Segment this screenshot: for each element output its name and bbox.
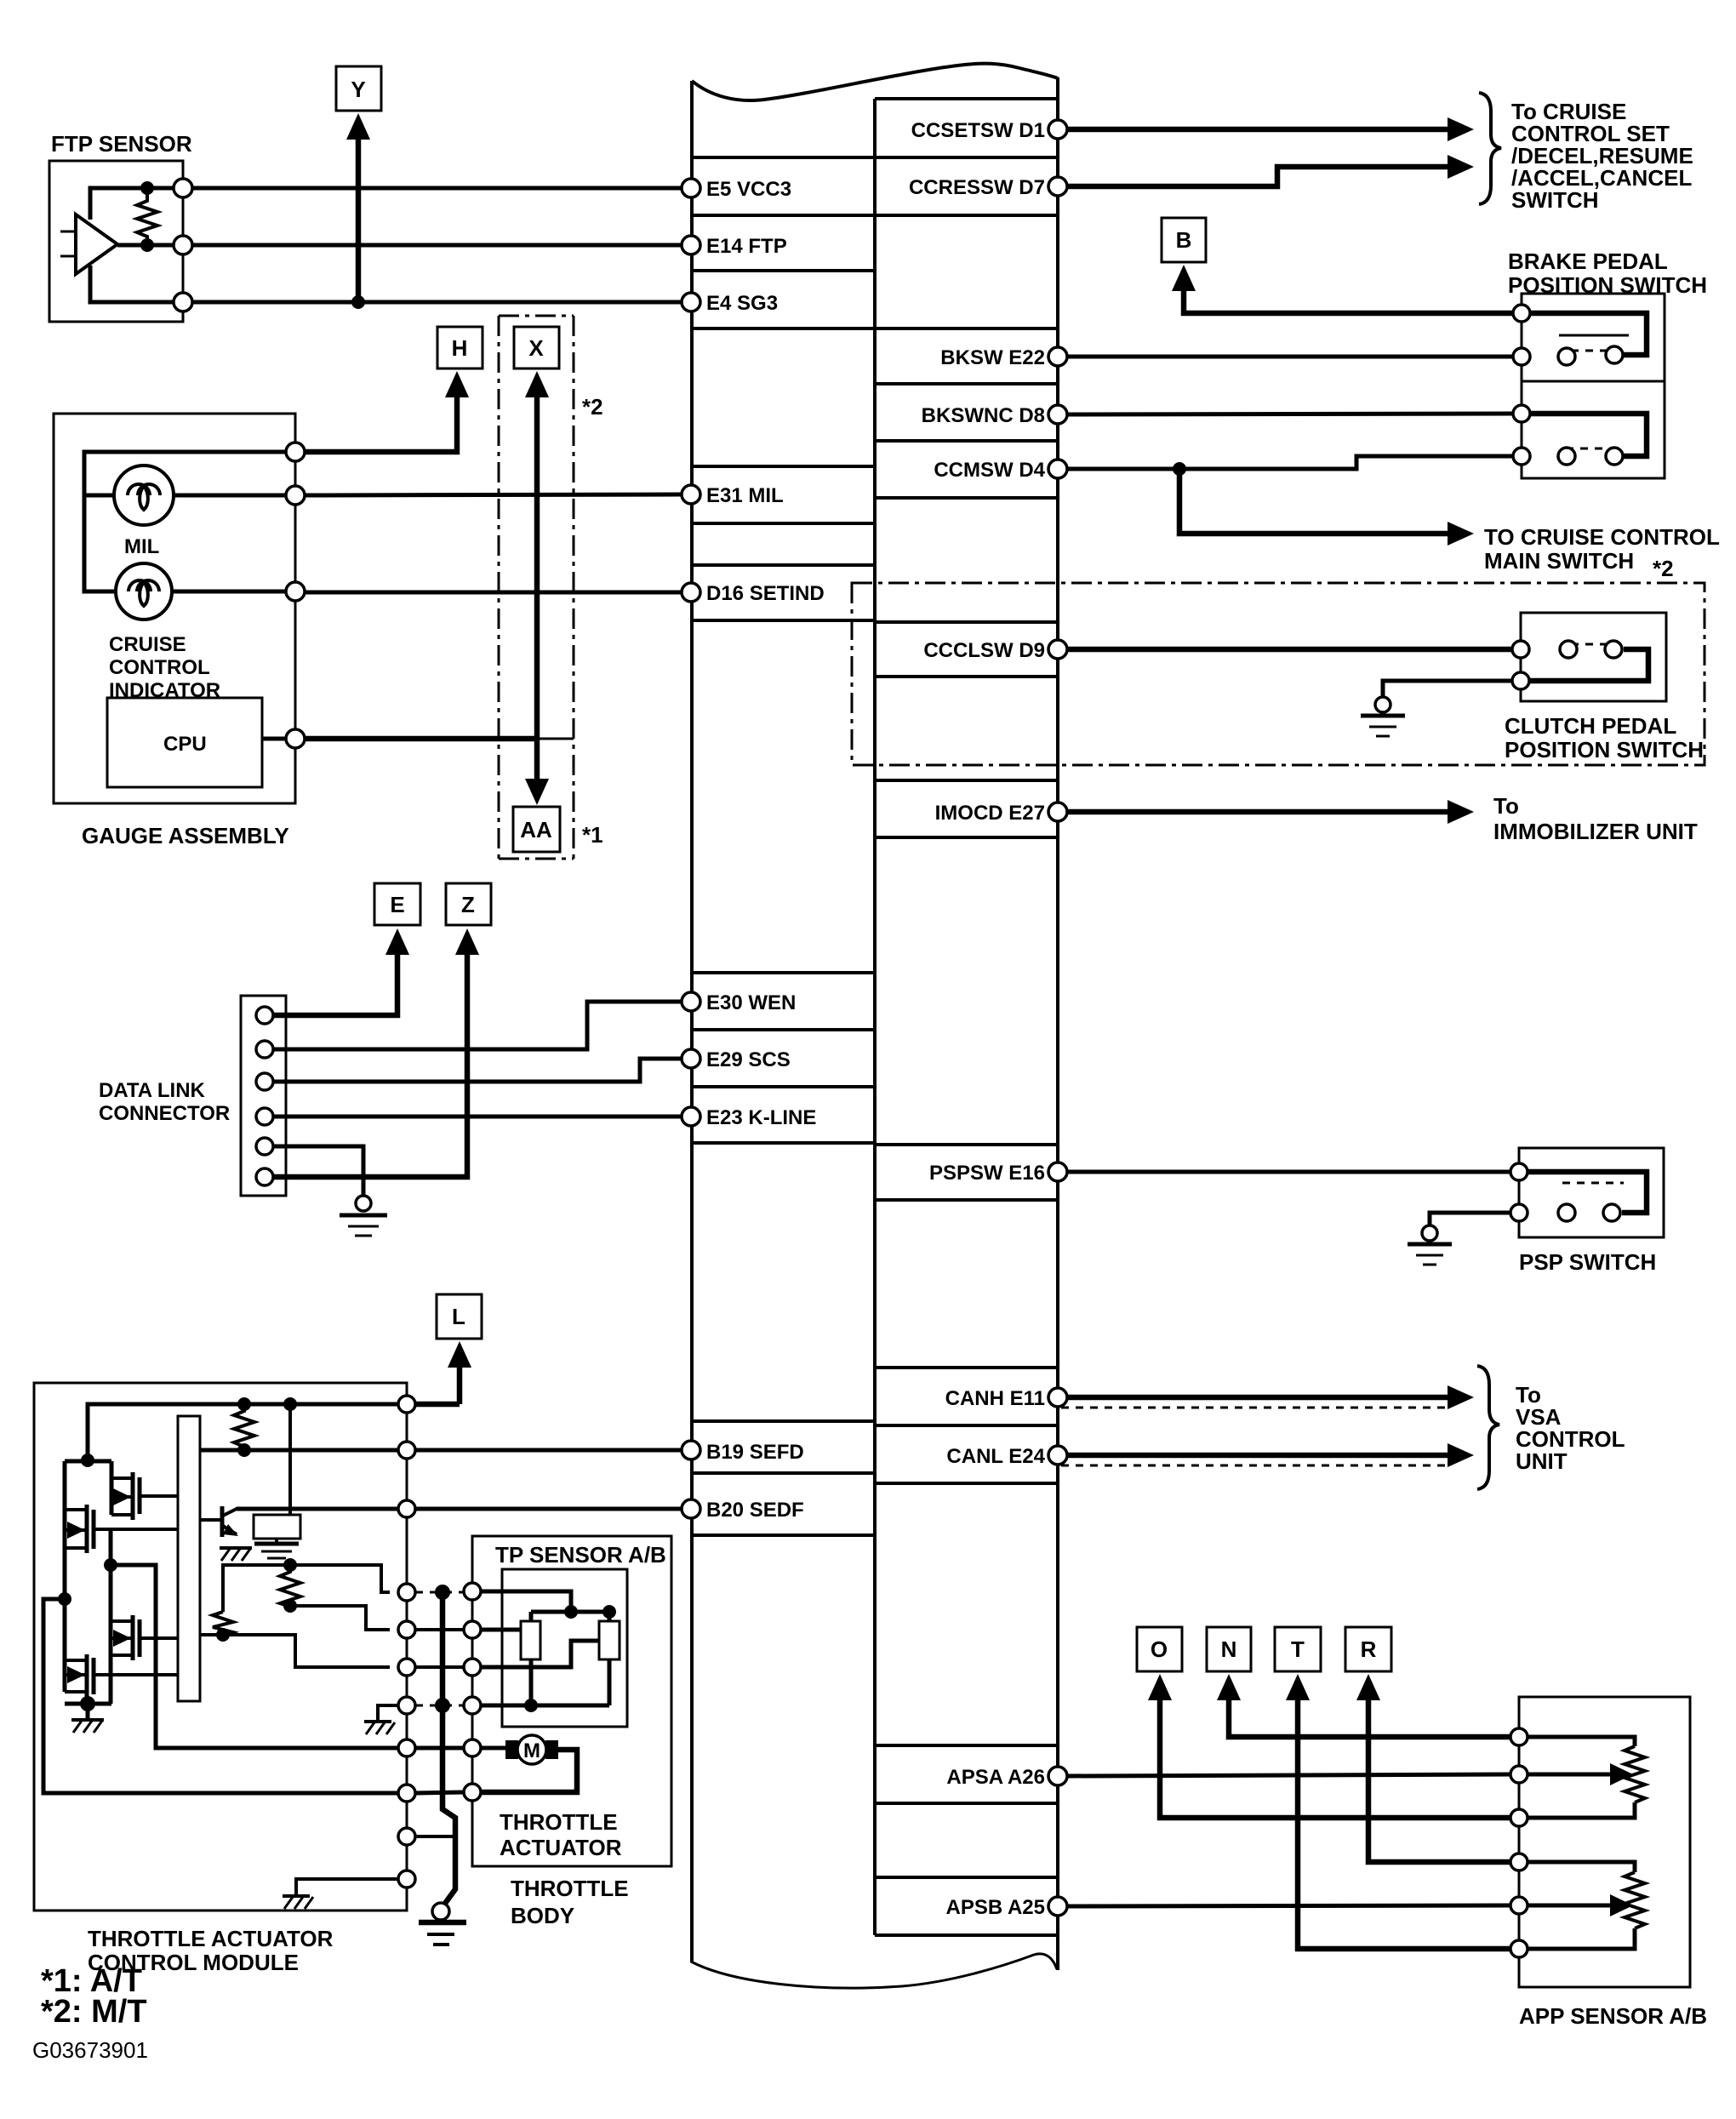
junction at Q2/Q4 rail bbox=[58, 1592, 71, 1606]
rail R2 to TP wiper A row bbox=[290, 1606, 390, 1630]
brake switch 2 dashed contact bbox=[1566, 448, 1617, 450]
arrowhead into H bbox=[445, 371, 469, 397]
APP sensor box bbox=[1519, 1697, 1707, 2029]
brake switch 1 closed bar bbox=[1559, 334, 1629, 337]
brake pedal position switch boxes bbox=[1508, 248, 1707, 478]
svg-text:B20 SEDF: B20 SEDF bbox=[706, 1499, 804, 1522]
wire CANL E24 to VSA bbox=[1067, 1453, 1451, 1459]
svg-text:D16 SETIND: D16 SETIND bbox=[706, 582, 825, 605]
FTP internal pull-up resistor bbox=[137, 194, 157, 241]
junction R2 bottom bbox=[283, 1599, 297, 1613]
junction on CCMSW wire bbox=[1173, 462, 1186, 476]
svg-text:M: M bbox=[523, 1739, 540, 1762]
wire TACM to B19 SEFD bbox=[415, 1448, 682, 1453]
CPU output wire bbox=[262, 737, 286, 741]
wire PSPSW E16 to PSP switch bbox=[1067, 1170, 1512, 1174]
junction R3 bottom bbox=[216, 1628, 230, 1642]
svg-text:BODY: BODY bbox=[511, 1903, 574, 1928]
wire TACM to motor return bbox=[415, 1792, 464, 1793]
wire CCMSW D4 to brake switch 2 bbox=[1067, 456, 1513, 469]
svg-text:CONTROL: CONTROL bbox=[109, 656, 210, 679]
svg-text:CONNECTOR: CONNECTOR bbox=[99, 1102, 230, 1125]
wire DLC pin2 to E30 WEN bbox=[273, 1002, 682, 1049]
throttle body pin circles bbox=[464, 1583, 481, 1801]
left rail of mosfet bridge bbox=[65, 1459, 111, 1464]
wire IMOCD E27 to immobilizer bbox=[1067, 809, 1451, 815]
arrowhead into B bbox=[1172, 265, 1196, 291]
svg-text:GAUGE ASSEMBLY: GAUGE ASSEMBLY bbox=[82, 823, 289, 848]
svg-text:R: R bbox=[1361, 1636, 1377, 1662]
throttle actuator control module box bbox=[34, 1383, 407, 1975]
wire from Q4 rail to motor return row bbox=[43, 1599, 398, 1793]
clutch switch pin circles bbox=[1512, 641, 1529, 658]
junction TP VCC bbox=[564, 1605, 578, 1619]
op-amp inside FTP sensor bbox=[76, 214, 117, 274]
junction R1 bottom bbox=[237, 1443, 251, 1457]
arrowhead into X bbox=[525, 371, 549, 397]
svg-text:B: B bbox=[1176, 227, 1192, 253]
ECM pin circles, right edge bbox=[1048, 120, 1067, 1916]
dashed link TACM to TB row1 bbox=[415, 1591, 464, 1594]
svg-text:POSITION SWITCH: POSITION SWITCH bbox=[1508, 272, 1707, 298]
svg-text:CCMSW D4: CCMSW D4 bbox=[934, 459, 1045, 482]
svg-text:TP SENSOR A/B: TP SENSOR A/B bbox=[495, 1542, 666, 1568]
PSP switch box bbox=[1519, 1148, 1664, 1275]
clutch switch movable contact bbox=[1530, 649, 1648, 681]
svg-text:Y: Y bbox=[351, 77, 365, 102]
brake switch 1 pin circles bbox=[1513, 305, 1530, 322]
resistor R1 bbox=[234, 1404, 254, 1450]
svg-text:CLUTCH PEDAL: CLUTCH PEDAL bbox=[1505, 713, 1676, 739]
transistor Q5 bbox=[200, 1506, 238, 1537]
connector E box bbox=[374, 883, 420, 925]
svg-text:L: L bbox=[452, 1304, 465, 1329]
svg-text:E31 MIL: E31 MIL bbox=[706, 484, 784, 507]
wire gauge pin 1 to connector H bbox=[305, 394, 457, 452]
svg-text:BRAKE PEDAL: BRAKE PEDAL bbox=[1508, 248, 1668, 274]
wire gauge cruise pin to D16 SETIND bbox=[305, 591, 682, 595]
svg-text:IMMOBILIZER UNIT: IMMOBILIZER UNIT bbox=[1493, 819, 1698, 844]
rail BJT collector to B20 pin bbox=[237, 1507, 398, 1511]
arrowhead into E bbox=[385, 928, 409, 955]
wire APP SG to connector O bbox=[1160, 1697, 1510, 1818]
APP resistor B bbox=[1528, 1862, 1635, 1872]
wire CPU pin toward X line bbox=[305, 736, 537, 742]
brake switch 1 movable contact bbox=[1530, 313, 1647, 355]
MIL lamp bbox=[114, 465, 174, 558]
svg-text:PSP SWITCH: PSP SWITCH bbox=[1519, 1249, 1656, 1275]
motor return wire bbox=[481, 1750, 577, 1792]
wire CCRESSW D7 to cruise set switch bbox=[1067, 167, 1451, 186]
brake switch 2 pin circles bbox=[1513, 405, 1530, 422]
svg-text:X: X bbox=[528, 335, 544, 361]
junction shield row4 bbox=[435, 1698, 450, 1713]
TP sensor VCC wiring bbox=[481, 1591, 609, 1621]
svg-text:THROTTLE: THROTTLE bbox=[500, 1809, 618, 1835]
TP wiper A wire bbox=[481, 1628, 521, 1632]
svg-text:DATA LINK: DATA LINK bbox=[99, 1079, 206, 1102]
clutch switch dashed contact bbox=[1571, 643, 1610, 646]
ground for Q5 emitter bbox=[220, 1548, 252, 1561]
svg-text:To: To bbox=[1493, 793, 1519, 819]
TACM top rail bbox=[88, 1404, 398, 1460]
driver IC bar bbox=[178, 1416, 200, 1701]
TACM right edge pin circles bbox=[398, 1396, 415, 1888]
connector L box bbox=[437, 1294, 482, 1339]
main earth ground bbox=[419, 1903, 466, 1945]
svg-text:AA: AA bbox=[520, 817, 552, 842]
dashed shield CANH bbox=[1061, 1407, 1447, 1409]
TP wiper B wire bbox=[481, 1641, 599, 1667]
ground for DLC bbox=[340, 1196, 387, 1236]
ground at TACM ground pin bbox=[283, 1896, 313, 1909]
svg-text:E30 WEN: E30 WEN bbox=[706, 991, 796, 1014]
brace cruise set switch bbox=[1479, 93, 1501, 204]
dashed link TACM to TB row4 bbox=[415, 1705, 464, 1707]
label to cruise control set switch bbox=[1511, 99, 1693, 213]
svg-text:IMOCD E27: IMOCD E27 bbox=[935, 802, 1045, 825]
FTP internal wires bbox=[90, 188, 174, 302]
ground stub slashes bbox=[364, 1722, 395, 1734]
gauge assembly box bbox=[54, 414, 295, 848]
wire FTP to E5 VCC3 bbox=[192, 186, 682, 191]
ECM pin labels, right column bbox=[909, 119, 1046, 1919]
op-amp input stubs bbox=[60, 231, 76, 256]
shield drain thick wire bbox=[443, 1592, 455, 1905]
svg-text:T: T bbox=[1291, 1636, 1305, 1662]
clutch pedal position switch box bbox=[1505, 613, 1704, 762]
DLC pin circles bbox=[256, 1007, 273, 1024]
wire DLC pin3 to E29 SCS bbox=[273, 1059, 682, 1082]
svg-text:APSB A25: APSB A25 bbox=[946, 1896, 1045, 1919]
gauge assembly pin circles bbox=[286, 443, 305, 461]
FTP sensor box bbox=[49, 131, 192, 322]
arrowhead into T bbox=[1286, 1674, 1310, 1700]
junction TP ground bbox=[524, 1699, 538, 1712]
svg-text:*1: *1 bbox=[582, 822, 603, 848]
svg-text:MAIN SWITCH: MAIN SWITCH bbox=[1484, 548, 1634, 574]
arrowhead CANL bbox=[1448, 1443, 1474, 1467]
arrowhead CANH bbox=[1448, 1385, 1474, 1409]
svg-text:TO CRUISE CONTROL: TO CRUISE CONTROL bbox=[1484, 524, 1720, 550]
ECM connector band outline (torn-paper top and bottom edges) bbox=[691, 64, 1058, 1988]
wire junction to motor drive rail bbox=[111, 1565, 398, 1748]
rail to B19 pin bbox=[200, 1448, 398, 1453]
svg-text:*2: *2 bbox=[1653, 556, 1674, 581]
resistor R3 bbox=[213, 1612, 233, 1636]
PSP switch contact circles bbox=[1558, 1204, 1575, 1221]
svg-text:G03673901: G03673901 bbox=[32, 2037, 148, 2063]
wire CANH E11 to VSA bbox=[1067, 1395, 1451, 1401]
junction dots on top rail bbox=[237, 1397, 251, 1411]
rail IC to TP wiper B row bbox=[200, 1635, 390, 1667]
svg-text:E14 FTP: E14 FTP bbox=[706, 235, 787, 258]
label to VSA control unit bbox=[1516, 1382, 1625, 1474]
APP wiper B arrow bbox=[1528, 1904, 1614, 1908]
svg-text:Z: Z bbox=[461, 892, 475, 917]
wire APSA A26 to APP sensor bbox=[1067, 1774, 1510, 1776]
svg-text:APSA A26: APSA A26 bbox=[946, 1766, 1045, 1789]
TP sensor inner box bbox=[495, 1542, 666, 1727]
junction TP resistor B top bbox=[602, 1605, 616, 1619]
ECM pin labels, left column bbox=[706, 178, 825, 1522]
svg-text:CCRESSW D7: CCRESSW D7 bbox=[909, 176, 1045, 199]
svg-text:CANL E24: CANL E24 bbox=[946, 1445, 1045, 1468]
arrowhead immobilizer bbox=[1448, 800, 1474, 824]
ECM pin circles, left edge bbox=[682, 179, 700, 1518]
clutch switch ground wire bbox=[1383, 681, 1512, 697]
mosfet Q3 bbox=[111, 1615, 178, 1660]
TP sensor resistor B bbox=[599, 1621, 620, 1659]
gauge internal feed wire bbox=[84, 452, 286, 591]
motor feed wire bbox=[481, 1746, 505, 1751]
svg-text:E5 VCC3: E5 VCC3 bbox=[706, 178, 791, 201]
svg-text:CCCLSW D9: CCCLSW D9 bbox=[923, 639, 1045, 662]
throttle motor M1 bbox=[505, 1735, 558, 1764]
wire CCSETSW D1 to cruise set switch bbox=[1067, 127, 1451, 133]
svg-text:ACTUATOR: ACTUATOR bbox=[500, 1835, 622, 1860]
PSP switch movable contact bbox=[1528, 1172, 1647, 1213]
svg-text:MIL: MIL bbox=[124, 535, 159, 558]
svg-text:E4 SG3: E4 SG3 bbox=[706, 292, 778, 315]
wire CCCLSW D9 to clutch switch bbox=[1067, 647, 1513, 653]
arrowhead into O bbox=[1148, 1674, 1172, 1700]
mosfet Q1 bbox=[111, 1461, 178, 1520]
wire DLC pin1 to connector E bbox=[273, 953, 397, 1015]
connector AA box bbox=[513, 807, 560, 852]
thin continuation of CPU wire bbox=[537, 738, 574, 740]
arrowhead cruise set 1 bbox=[1448, 117, 1474, 141]
svg-text:CPU: CPU bbox=[163, 733, 207, 756]
junction bottom tie bbox=[80, 1696, 95, 1711]
wire TACM to motor feed bbox=[415, 1746, 464, 1751]
wire DLC pin6 to connector Z bbox=[273, 953, 467, 1177]
relay coil box bbox=[254, 1515, 300, 1539]
arrowhead into Z bbox=[455, 928, 479, 955]
rail from Q2 gate line down to Q3 bbox=[109, 1529, 113, 1655]
brake switch 2 contact circles bbox=[1558, 448, 1575, 465]
cruise lamp wire to D16 bbox=[172, 590, 286, 594]
TACM shield row7 wire bbox=[415, 1835, 455, 1838]
connector Z box bbox=[446, 883, 491, 925]
arrowhead into R bbox=[1356, 1674, 1380, 1700]
arrowhead into Y bbox=[346, 113, 370, 140]
M/T dash-dot bracket around X bbox=[499, 316, 574, 859]
FTP sensor pin circles bbox=[174, 179, 192, 197]
wire TACM to B20 SEDF bbox=[415, 1507, 682, 1511]
wire BKSW E22 to brake switch bbox=[1067, 355, 1513, 359]
mosfet Q4 bbox=[65, 1599, 178, 1698]
arrowhead into L bbox=[448, 1341, 471, 1368]
brake switch 1 contact circles bbox=[1558, 348, 1575, 365]
brake switch 2 movable contact bbox=[1530, 414, 1647, 456]
svg-text:O: O bbox=[1151, 1636, 1168, 1662]
MIL lamp wire to E31 bbox=[174, 494, 286, 498]
PSP switch dashed contact bbox=[1562, 1182, 1624, 1185]
svg-text:BKSW E22: BKSW E22 bbox=[940, 346, 1045, 369]
svg-text:*2: *2 bbox=[582, 394, 603, 420]
CPU box bbox=[107, 698, 262, 787]
svg-text:*2: M/T: *2: M/T bbox=[41, 1994, 147, 2030]
cruise control indicator lamp bbox=[109, 563, 220, 702]
M/T dash-dot box for clutch switch bbox=[852, 583, 1705, 765]
junction on FTP wire bbox=[140, 238, 154, 252]
wire FTP to E4 SG3 bbox=[192, 300, 682, 305]
wire APP B top to connector R bbox=[1368, 1697, 1510, 1862]
svg-text:APP SENSOR A/B: APP SENSOR A/B bbox=[1519, 2003, 1707, 2029]
wire to connector L bbox=[457, 1364, 463, 1404]
wire TACM pin1 to L bbox=[415, 1402, 460, 1408]
TACM sensor-ground stub bbox=[378, 1705, 398, 1722]
APP resistor A bbox=[1528, 1737, 1635, 1746]
svg-text:THROTTLE: THROTTLE bbox=[511, 1876, 629, 1901]
connector T box bbox=[1275, 1627, 1321, 1671]
wire APP B low to connector T bbox=[1298, 1697, 1510, 1949]
connector R box bbox=[1345, 1627, 1391, 1671]
bottom tie of bridge bbox=[65, 1655, 111, 1704]
arrowhead cruise set 2 bbox=[1448, 155, 1474, 179]
connector N box bbox=[1207, 1627, 1251, 1671]
TP sensor ground wiring bbox=[481, 1659, 609, 1705]
svg-text:CRUISE: CRUISE bbox=[109, 633, 186, 656]
svg-text:THROTTLE ACTUATOR: THROTTLE ACTUATOR bbox=[88, 1926, 334, 1951]
APP pin circles bbox=[1510, 1728, 1528, 1957]
coil feed wire bbox=[288, 1404, 292, 1515]
wire FTP to E14 FTP bbox=[192, 243, 682, 248]
brake switch 1 dashed contact bbox=[1571, 350, 1610, 352]
junction R2 top bbox=[283, 1558, 297, 1572]
label to immobilizer unit bbox=[1493, 793, 1698, 844]
wire TACM to TB wiper A bbox=[415, 1628, 464, 1631]
label to cruise control main switch bbox=[1484, 524, 1720, 574]
wire DLC pin5 to ground bbox=[273, 1146, 363, 1197]
svg-text:E23 K-LINE: E23 K-LINE bbox=[706, 1106, 816, 1129]
gate rail junction bbox=[104, 1558, 117, 1572]
resistor R2 bbox=[280, 1565, 300, 1607]
svg-text:E: E bbox=[390, 892, 404, 917]
ground for clutch switch bbox=[1361, 697, 1405, 736]
svg-text:N: N bbox=[1221, 1636, 1237, 1662]
branch to cruise main switch bbox=[1179, 469, 1451, 534]
svg-text:CANH E11: CANH E11 bbox=[945, 1387, 1045, 1410]
connector Y box bbox=[336, 66, 381, 111]
PSP switch pin circles bbox=[1510, 1163, 1528, 1180]
vertical wire X to AA bbox=[534, 394, 540, 784]
earth ground under coil box bbox=[254, 1539, 299, 1558]
wire APP VCC to connector N bbox=[1229, 1697, 1510, 1737]
svg-text:UNIT: UNIT bbox=[1516, 1448, 1568, 1474]
wire DLC pin4 to E23 K-LINE bbox=[273, 1115, 682, 1119]
arrowhead into N bbox=[1217, 1674, 1241, 1700]
wire to connector Y bbox=[356, 136, 362, 302]
junction of Y wire on E4 SG3 bbox=[351, 295, 365, 309]
svg-text:E29 SCS: E29 SCS bbox=[706, 1048, 791, 1071]
svg-text:POSITION SWITCH: POSITION SWITCH bbox=[1505, 737, 1704, 762]
svg-text:BKSWNC D8: BKSWNC D8 bbox=[922, 404, 1045, 427]
wire BKSWNC D8 to brake switch 2 bbox=[1067, 414, 1513, 414]
ground for PSP switch bbox=[1408, 1225, 1452, 1265]
svg-text:FTP SENSOR: FTP SENSOR bbox=[51, 131, 192, 157]
svg-text:PSPSW E16: PSPSW E16 bbox=[929, 1162, 1045, 1185]
svg-text:H: H bbox=[452, 335, 468, 361]
wire brake switch to connector B bbox=[1184, 288, 1515, 313]
junction on VCC3 wire bbox=[140, 181, 154, 195]
svg-text:CCSETSW D1: CCSETSW D1 bbox=[911, 119, 1045, 142]
data link connector box bbox=[99, 996, 286, 1196]
connector X box bbox=[514, 327, 559, 368]
dashed shield CANL bbox=[1061, 1465, 1447, 1467]
ECM row divider lines bbox=[692, 99, 1058, 1935]
svg-text:B19 SEFD: B19 SEFD bbox=[706, 1441, 804, 1464]
wire TACM to TB wiper B bbox=[415, 1665, 464, 1669]
APP wiper A arrow bbox=[1528, 1773, 1614, 1777]
brace VSA bbox=[1477, 1366, 1499, 1489]
TP sensor A feed rail bbox=[223, 1565, 390, 1612]
throttle body box bbox=[472, 1536, 671, 1928]
svg-text:SWITCH: SWITCH bbox=[1511, 187, 1599, 213]
arrowhead cruise main switch bbox=[1448, 522, 1474, 545]
wire APSB A25 to APP sensor bbox=[1067, 1905, 1510, 1906]
TACM ground pin wire bbox=[296, 1879, 398, 1896]
connector O box bbox=[1137, 1627, 1182, 1671]
junction shield row1 bbox=[435, 1585, 450, 1600]
connector H box bbox=[437, 327, 483, 368]
ground under bridge bbox=[71, 1704, 104, 1733]
wire gauge MIL pin to E31 MIL bbox=[305, 494, 682, 495]
connector B box bbox=[1162, 218, 1206, 262]
PSP switch ground wire bbox=[1430, 1213, 1510, 1225]
TP sensor resistor A bbox=[521, 1621, 540, 1659]
throttle actuator label bbox=[500, 1809, 622, 1860]
clutch switch contact circles bbox=[1560, 641, 1577, 658]
arrowhead into AA bbox=[525, 779, 549, 805]
mosfet Q2 bbox=[65, 1461, 178, 1599]
